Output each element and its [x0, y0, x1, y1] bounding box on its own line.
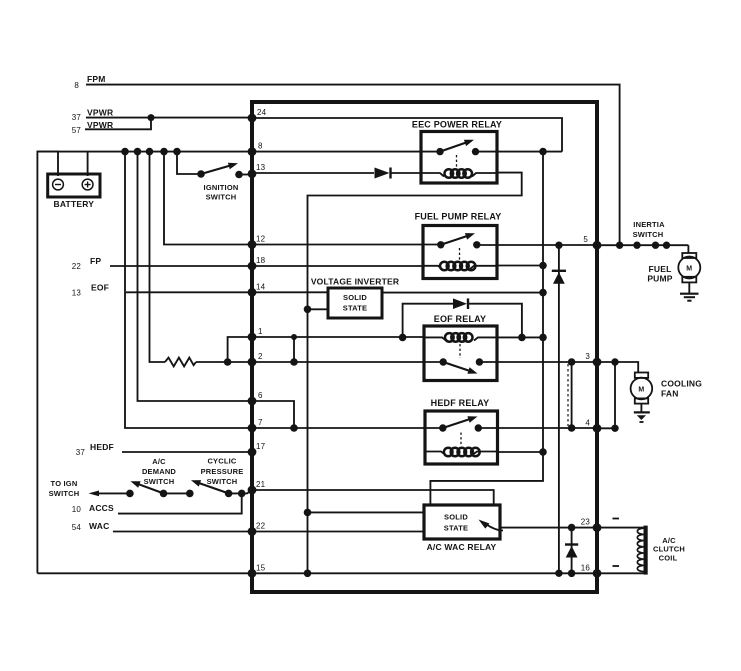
node pin 23 edge	[593, 523, 602, 532]
svg-text:SWITCH: SWITCH	[207, 477, 238, 486]
svg-text:EEC POWER RELAY: EEC POWER RELAY	[412, 120, 502, 130]
wire pin 13 row	[252, 172, 374, 174]
node chain contact 3	[186, 490, 194, 498]
node pin 4 edge	[593, 424, 602, 433]
wire pin 6 row bracket	[252, 401, 294, 428]
wire battery bus to pin 8	[37, 151, 252, 153]
node resistor junction	[224, 358, 232, 366]
HEDF relay coil L4	[425, 448, 498, 457]
svg-text:22: 22	[256, 522, 266, 531]
node pin 15 edge	[248, 569, 257, 578]
battery B1	[48, 174, 100, 197]
svg-text:FP: FP	[90, 256, 101, 266]
node pin 16 edge	[593, 569, 602, 578]
svg-text:14: 14	[256, 282, 266, 291]
fuel pump relay linkage	[459, 248, 461, 260]
svg-text:BATTERY: BATTERY	[54, 199, 95, 209]
node bus tap 5	[173, 148, 181, 156]
svg-text:6: 6	[258, 391, 263, 400]
node V7 WAC junction	[304, 509, 312, 517]
svg-text:VPWR: VPWR	[87, 108, 113, 118]
EOF relay arm	[443, 362, 470, 371]
wire EEC coil return path	[308, 173, 522, 574]
wire EOF coil to V1	[497, 336, 543, 338]
svg-text:A/C WAC RELAY: A/C WAC RELAY	[427, 542, 497, 552]
node pin 8 edge	[248, 147, 257, 156]
svg-text:5: 5	[583, 235, 588, 244]
diode CR1 on pin 13 row	[375, 168, 390, 179]
svg-text:FUEL PUMP RELAY: FUEL PUMP RELAY	[415, 212, 502, 222]
node pin 12 edge	[248, 240, 257, 249]
fuel pump motor M1	[678, 253, 700, 294]
wire ACCS input	[118, 493, 242, 513]
svg-text:COIL: COIL	[659, 554, 678, 563]
svg-text:A/C: A/C	[152, 457, 166, 466]
node V5 bottom	[611, 425, 618, 432]
wire chain segment	[164, 492, 190, 494]
wire pin 23 row	[500, 527, 597, 529]
node VPWR junction	[148, 114, 155, 121]
svg-text:STATE: STATE	[444, 524, 468, 533]
svg-text:4: 4	[585, 418, 590, 427]
relay U5 HEDF relay box	[425, 411, 498, 464]
wire pin 23 row outside	[597, 527, 644, 529]
polarity mark minus	[613, 565, 620, 567]
svg-text:WAC: WAC	[89, 521, 109, 531]
svg-text:SWITCH: SWITCH	[633, 230, 664, 239]
svg-text:8: 8	[74, 81, 79, 90]
wire FPM line	[86, 85, 620, 246]
svg-text:VOLTAGE INVERTER: VOLTAGE INVERTER	[311, 277, 399, 287]
wire junction up to pin 1	[228, 337, 252, 362]
wire pin 21 row into WAC relay	[252, 490, 494, 505]
node pin1 bracket T	[291, 334, 297, 340]
node bus tap 4	[160, 148, 168, 156]
cyclic pressure switch S3	[191, 480, 232, 497]
wire HEDF input to pin 17	[122, 451, 252, 453]
relay U2 fuel pump relay box	[423, 226, 497, 279]
svg-text:COOLING: COOLING	[661, 379, 702, 389]
resistor R1	[165, 358, 196, 367]
svg-text:21: 21	[256, 480, 266, 489]
wire bus drop to pin 12	[164, 152, 252, 245]
svg-text:37: 37	[72, 113, 82, 122]
relay U1 EEC power relay box	[421, 132, 497, 184]
svg-text:8: 8	[258, 142, 263, 151]
wire V1 interior bus	[430, 152, 543, 505]
svg-text:IGNITION: IGNITION	[204, 183, 239, 192]
wire VPWR pin57	[85, 118, 151, 130]
wire WAC input to pin 22	[113, 531, 252, 533]
svg-text:EOF RELAY: EOF RELAY	[434, 314, 486, 324]
wire pin 24 row to pin 8 row hook	[252, 118, 562, 152]
inertia switch S4	[633, 242, 688, 249]
wire pin 1 row to EOF coil	[252, 336, 424, 338]
svg-text:3: 3	[585, 352, 590, 361]
node pin 5 edge	[593, 241, 602, 250]
node V2 bottom junction	[555, 570, 562, 577]
EEC relay coil L1	[421, 169, 497, 178]
node ACCS junction	[238, 490, 246, 498]
svg-text:PUMP: PUMP	[647, 274, 672, 284]
node pin 14 edge	[248, 288, 257, 297]
node V3 bottom	[568, 424, 576, 432]
svg-text:TO IGN: TO IGN	[51, 479, 78, 488]
node V4 top	[568, 524, 576, 532]
voltage inverter U3 solid state box	[328, 288, 382, 318]
EOF relay linkage	[459, 344, 461, 358]
fuel pump relay coil L2	[423, 262, 497, 271]
svg-text:12: 12	[256, 235, 266, 244]
wire to ign switch arrow	[89, 491, 100, 497]
cooling fan motor M2	[631, 373, 653, 413]
wire fuel pump relay output to pin 5	[477, 244, 597, 246]
node pin 7 edge	[248, 424, 257, 433]
node AC switch chain contact 1	[126, 490, 134, 498]
EOF relay contacts	[440, 358, 447, 365]
svg-text:ACCS: ACCS	[89, 503, 114, 513]
node V1 HEDF coil junction	[539, 448, 547, 456]
svg-text:18: 18	[256, 256, 266, 265]
node V5 top	[611, 358, 618, 365]
WAC relay output arrow	[485, 524, 503, 531]
wire HEDF output to pin 4	[478, 427, 597, 429]
wire pin1-pin2 bracket	[293, 337, 295, 362]
svg-text:24: 24	[257, 108, 267, 117]
svg-text:22: 22	[72, 262, 82, 271]
node V3 top	[568, 358, 576, 366]
svg-text:2: 2	[258, 352, 263, 361]
node pin 22 edge	[248, 527, 257, 536]
svg-text:INERTIA: INERTIA	[633, 220, 665, 229]
svg-text:23: 23	[581, 518, 591, 527]
svg-text:VPWR: VPWR	[87, 120, 113, 130]
wire V2 pin5 to pin16	[558, 245, 560, 573]
svg-text:57: 57	[72, 126, 82, 135]
svg-text:1: 1	[258, 327, 263, 336]
wire FP input to pin 18	[110, 265, 252, 267]
A/C WAC relay U6 solid state box	[424, 505, 500, 539]
fuel pump relay contacts	[437, 241, 444, 248]
HEDF relay arm	[443, 419, 471, 428]
node V7 pin15 junction	[304, 570, 312, 578]
svg-text:FAN: FAN	[661, 389, 679, 399]
svg-text:HEDF: HEDF	[90, 442, 114, 452]
node bus tap 3	[146, 148, 154, 156]
ground fuel pump	[680, 294, 699, 301]
node pin 17 edge	[248, 448, 257, 457]
svg-text:FUEL: FUEL	[649, 264, 672, 274]
svg-text:HEDF RELAY: HEDF RELAY	[431, 398, 490, 408]
node bus tap 2	[134, 148, 142, 156]
wire V7 lead to WAC relay	[308, 511, 425, 513]
svg-text:M: M	[686, 266, 692, 273]
A/C demand switch S2	[131, 481, 168, 497]
diode CR3 on V2	[552, 270, 566, 272]
diode CR2 loop over EOF coil	[403, 298, 522, 337]
svg-text:CYCLIC: CYCLIC	[207, 457, 236, 466]
wire bus drop to resistor	[150, 152, 166, 362]
node pin 13 edge	[248, 169, 257, 178]
wire to fuel pump	[687, 245, 689, 253]
node pin7 bracket junction	[290, 424, 298, 432]
HEDF relay linkage	[460, 433, 462, 447]
wire bus drop to pin 6	[138, 152, 253, 401]
node V1 EOF coil junction	[539, 334, 547, 342]
wire chain to pin 21	[229, 490, 252, 493]
wire EOF output to pin 3	[479, 361, 597, 363]
wire pin 5 row outside	[597, 244, 637, 246]
EEC module box	[252, 102, 597, 592]
node pin 6 edge	[248, 397, 257, 406]
svg-text:16: 16	[581, 563, 591, 572]
EEC relay linkage	[456, 155, 458, 167]
node V2 top junction	[555, 242, 562, 249]
wire fuel pump coil to V1	[497, 265, 543, 267]
svg-text:SWITCH: SWITCH	[206, 193, 237, 202]
svg-text:PRESSURE: PRESSURE	[201, 467, 244, 476]
wire battery positive riser	[87, 152, 89, 176]
node pin 18 edge	[248, 262, 257, 271]
EOF relay coil L3	[424, 333, 497, 342]
svg-text:CLUTCH: CLUTCH	[653, 545, 685, 554]
node pin 2 edge	[248, 358, 257, 367]
svg-text:17: 17	[256, 442, 266, 451]
svg-text:15: 15	[256, 563, 266, 572]
fuel pump relay arm	[441, 236, 468, 245]
wire V3 pin3 to pin4 connector	[571, 362, 573, 428]
svg-text:10: 10	[72, 505, 82, 514]
node V1 top junction	[539, 148, 547, 156]
svg-text:54: 54	[72, 523, 82, 532]
node V7 inverter junction	[304, 306, 312, 314]
wire resistor to pin 2	[196, 361, 252, 363]
node pin 3 edge	[593, 358, 602, 367]
ground cooling fan	[634, 412, 650, 422]
node FPM junction pin5 row	[616, 242, 623, 249]
svg-text:SOLID: SOLID	[343, 293, 367, 302]
svg-text:DEMAND: DEMAND	[142, 467, 176, 476]
node V1 pin14 junction	[539, 289, 547, 297]
svg-text:SWITCH: SWITCH	[49, 489, 80, 498]
wire pin 8 row inside	[252, 151, 440, 153]
wire battery negative riser and left ground loop	[37, 152, 58, 574]
wire V5 pin3 to pin4 outside	[614, 362, 616, 428]
wire EEC relay output row	[476, 151, 563, 153]
node pin2 bracket junction	[290, 358, 298, 366]
HEDF relay contacts	[439, 424, 446, 431]
wire bottom ground return to pin 15	[37, 572, 252, 574]
A/C clutch coil L5	[637, 526, 647, 575]
node pin 24 edge	[248, 114, 257, 123]
relay U4 EOF relay box	[424, 326, 497, 381]
svg-text:M: M	[638, 387, 644, 394]
wire pin 18 row to coil	[252, 265, 423, 267]
wire voltage inverter output row	[382, 292, 543, 294]
svg-text:13: 13	[256, 163, 266, 172]
svg-text:7: 7	[258, 418, 263, 427]
ignition switch S1	[177, 152, 252, 179]
wire bus drop to pin 7	[125, 152, 252, 428]
EEC relay switch contacts	[436, 148, 443, 155]
wire pin 3 to cooling fan	[597, 362, 638, 373]
wire pin 16 row outside	[597, 572, 644, 574]
wire pin 22 row to WAC relay	[252, 531, 424, 533]
svg-text:SOLID: SOLID	[444, 513, 468, 522]
node V1 coil junction	[539, 262, 547, 270]
node EOF coil right junction	[518, 334, 526, 342]
wire pin 12 row	[252, 244, 441, 246]
svg-text:13: 13	[72, 289, 82, 298]
wire dashed parallel mark pin3-pin4	[567, 364, 569, 426]
wire pin 2 row to EOF switch	[252, 361, 443, 363]
wire pin 7 row to HEDF switch	[252, 427, 443, 429]
diode CR4 on V4	[565, 543, 578, 545]
wire V4 pin23 to pin16 diode branch	[571, 528, 573, 574]
svg-text:EOF: EOF	[91, 283, 109, 293]
wire HEDF coil to V1	[498, 451, 544, 453]
wire pin 4 row outside	[597, 427, 615, 429]
wire EOF input to pin 14	[126, 291, 252, 293]
node pin 1 edge	[248, 333, 257, 342]
wire pin 14 row to voltage inverter	[252, 291, 328, 293]
EEC relay arm	[440, 142, 467, 151]
node pin 21 edge	[248, 486, 257, 495]
node EOF coil left junction	[399, 334, 407, 342]
wire diode to EEC relay coil	[391, 172, 422, 174]
svg-text:FPM: FPM	[87, 74, 106, 84]
node V4 bottom	[568, 570, 576, 578]
wire VPWR pin37	[86, 117, 252, 119]
polarity mark plus	[613, 518, 620, 520]
node bus tap 1	[121, 148, 129, 156]
svg-text:STATE: STATE	[343, 304, 367, 313]
wire pin 15 to pin 16 row	[252, 572, 597, 574]
wire V7 lead to voltage inverter	[308, 308, 329, 310]
svg-text:SWITCH: SWITCH	[144, 477, 175, 486]
svg-text:37: 37	[76, 448, 86, 457]
